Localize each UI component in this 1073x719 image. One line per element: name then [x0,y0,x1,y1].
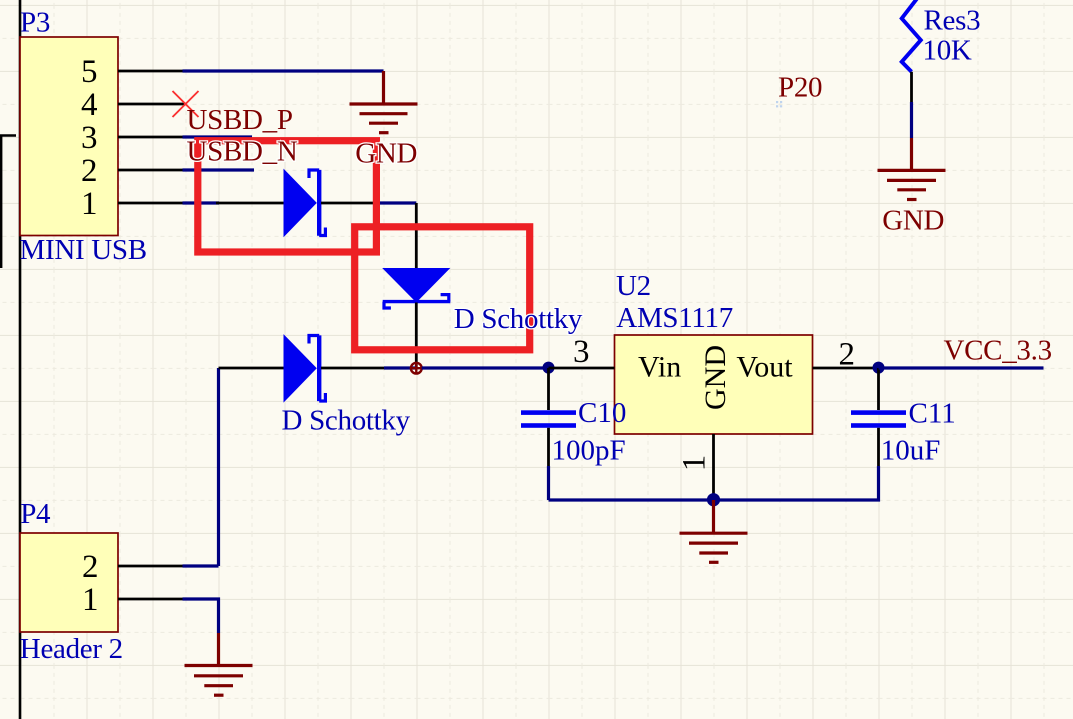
svg-text:P4: P4 [20,498,51,530]
svg-text:D Schottky: D Schottky [282,405,411,437]
svg-text:P20: P20 [778,71,822,103]
wire vertical sheet-edge line [19,0,22,719]
svg-text:3: 3 [573,334,590,370]
power port GND U2 [680,500,748,562]
power port GND bottom [185,633,253,695]
svg-text:1: 1 [677,455,713,472]
svg-text:2: 2 [839,336,856,372]
pin 1 of P3 [118,202,183,205]
wire P4 branch vertical [217,368,220,566]
regulator U2 pin 2 [813,367,879,370]
wire main to C10 [422,366,549,369]
diode D1 anode pin [216,202,284,205]
wire P4 pin1 corner [183,599,219,633]
no-ERC marker on pin 4 [173,91,199,117]
diode D3 schottky hooks [309,336,325,402]
svg-text:10K: 10K [923,34,972,66]
pin 1 of P4 [118,598,183,601]
diode D2 schottky hooks [384,295,449,308]
capacitor C11 top pin [877,368,880,410]
wire pin5 to GND [183,69,384,72]
capacitor C10 bottom pin [547,428,550,466]
diode D1 schottky hooks [309,170,325,236]
diode D3 cathode bar [317,335,321,401]
highlight box 2 [355,227,530,350]
power port GND top [350,71,418,133]
capacitor C11 bottom pin [877,428,880,466]
svg-text:2: 2 [82,549,99,585]
svg-text:5: 5 [81,54,98,90]
pin 5 of P3 [118,70,183,73]
wire C10 to U2 gnd bottom [549,498,714,501]
diode D1 cathode bar [317,170,321,236]
junction dot U2 gnd [707,493,720,506]
svg-text:C11: C11 [909,397,956,429]
svg-text:2: 2 [81,153,98,189]
wire pin1 segment [183,201,220,204]
resistor Res3 [902,0,921,72]
svg-text:Res3: Res3 [924,4,981,36]
svg-text:USBD_N: USBD_N [187,136,298,168]
svg-text:MINI USB: MINI USB [20,234,147,266]
capacitor C10 plates [521,410,576,415]
svg-text:GND: GND [699,345,732,410]
regulator U2 pin 3 [549,367,615,370]
regulator U2 pin 1 [712,434,715,500]
connector P3 [20,37,118,236]
resistor Res3 bottom pin [910,72,913,102]
svg-text:GND: GND [882,205,944,237]
svg-text:U2: U2 [616,270,651,302]
diode D2 cathode pin [415,303,418,369]
connector P4 [20,533,118,632]
svg-text:4: 4 [81,87,98,123]
junction dot C10 [543,362,555,374]
svg-text:Vout: Vout [736,351,793,384]
diode D2 cathode bar [383,300,451,303]
svg-text:AMS1117: AMS1117 [616,302,733,334]
capacitor C10 top pin [547,368,550,410]
junction dot C11 [873,362,885,374]
svg-text:Header 2: Header 2 [20,633,123,665]
wire USBD_P [183,135,253,138]
diode D3 triangle [284,334,317,403]
svg-text:P3: P3 [20,6,50,38]
pin 2 of P4 [118,565,183,568]
pin 3 of P3 [118,136,183,139]
diode D1 cathode pin [321,202,379,205]
power port GND Res3 [878,138,946,200]
wire vertical D2 branch [415,203,418,268]
regulator U2 body [615,335,813,434]
pin 2 of P3 [118,169,183,172]
svg-text:1: 1 [82,582,99,618]
wire Res3 to GND [910,102,913,138]
diode D3 cathode pin [321,367,384,370]
diode D1 triangle [284,169,317,238]
svg-text:D Schottky: D Schottky [454,303,583,335]
svg-text:1: 1 [81,186,98,222]
wire C11 down corner [714,466,879,500]
wire D3 to junction [384,366,416,369]
diode D3 anode pin [219,367,284,370]
svg-text:Vin: Vin [638,351,681,384]
diode D2 triangle [382,268,450,303]
svg-text:GND: GND [355,137,417,169]
wire VCC_3.3 [879,366,1044,369]
pin 4 of P3 [118,103,186,106]
capacitor C11 plates [851,410,906,415]
svg-text:10uF: 10uF [881,434,941,466]
wire USBD_N [183,168,255,171]
highlight box 1 [198,141,377,252]
wire off-screen corner left edge [1,136,16,269]
svg-text:100pF: 100pF [552,434,626,466]
svg-text:C10: C10 [578,397,626,429]
wire C10 down [547,466,550,500]
junction marker crossed circle [411,363,422,374]
svg-text:USBD_P: USBD_P [187,104,293,136]
svg-text:VCC_3.3: VCC_3.3 [944,334,1052,366]
wire pin1 to corner [379,201,417,204]
svg-text:3: 3 [81,120,98,156]
grid cursor artifact [776,101,782,107]
wire P4 pin2 corner [183,564,219,567]
